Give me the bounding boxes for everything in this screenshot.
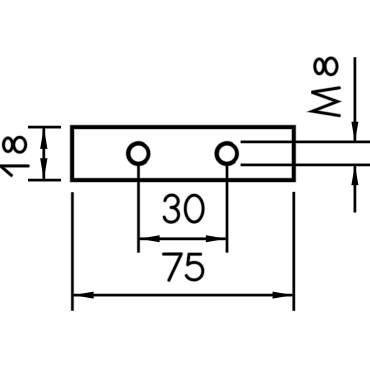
centerline left hole [137,165,139,252]
centerline right hole [226,165,228,252]
hole left M8 thread arc [127,142,147,165]
hole right M8 minor circle [217,144,237,164]
dim 18 line [43,127,45,180]
letter M [312,88,340,116]
dim 18 arrow down [40,158,47,180]
dim 18 extension tick top [28,126,61,128]
digit 7 [164,254,182,280]
label 30 [164,195,203,222]
dim 30 line [140,238,226,240]
dim 75 line [74,294,293,296]
dim 30 arrow right [206,235,226,242]
dim 18 extension tick bottom [28,179,61,181]
dim 75 arrow left [74,292,94,299]
digit 3 [164,195,178,222]
M8 arrow up [351,165,358,185]
dim 18 arrow up [40,127,47,148]
dim 30 arrow left [140,235,160,242]
main linework [1,57,370,310]
digit 8 [315,58,337,75]
digit 1 [1,166,29,176]
M8 arrow down [351,122,358,142]
hole left M8 minor circle [129,144,149,164]
dim 75 extension line left [71,192,73,310]
extension line M8 top [241,141,370,143]
hole right M8 thread arc [215,142,235,165]
dim 75 extension line right [293,192,295,311]
label 75 [164,254,203,280]
M8 dimension line upper leg [354,57,356,142]
label M 8 (rotated) [312,58,340,116]
M8 dimension line lower leg [354,165,356,213]
dim 75 arrow right [273,292,293,299]
soft halo underlay [1,57,370,310]
plate outline [72,127,294,180]
digit 0 [185,195,203,222]
label 18 (rotated) [1,137,29,175]
digit 8 [4,137,26,152]
extension line M8 bottom [241,164,370,166]
digit 5 [186,254,203,280]
